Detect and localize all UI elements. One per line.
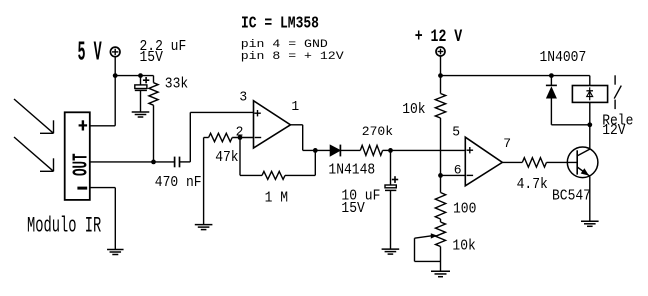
svg-text:1 M: 1 M xyxy=(265,190,288,207)
svg-text:270k: 270k xyxy=(362,124,393,139)
svg-text:pin 4 = GND: pin 4 = GND xyxy=(241,38,328,51)
svg-text:4.7k: 4.7k xyxy=(517,176,548,193)
svg-text:100: 100 xyxy=(453,201,476,218)
svg-text:5: 5 xyxy=(452,124,460,139)
svg-text:pin 8 = + 12V: pin 8 = + 12V xyxy=(241,50,345,63)
svg-text:1N4148: 1N4148 xyxy=(328,162,375,179)
svg-text:Modulo IR: Modulo IR xyxy=(27,213,101,238)
svg-text:10k: 10k xyxy=(452,238,475,255)
svg-text:15V: 15V xyxy=(140,49,164,66)
svg-text:3: 3 xyxy=(239,89,247,104)
svg-text:+ 12 V: + 12 V xyxy=(415,27,463,47)
svg-text:1N4007: 1N4007 xyxy=(540,49,587,66)
svg-text:5 V: 5 V xyxy=(78,38,102,68)
svg-text:IC = LM358: IC = LM358 xyxy=(241,15,319,33)
svg-text:1: 1 xyxy=(291,99,299,114)
svg-text:470 nF: 470 nF xyxy=(155,174,202,191)
svg-text:10k: 10k xyxy=(402,101,425,118)
svg-text:15V: 15V xyxy=(341,200,365,217)
svg-text:7: 7 xyxy=(503,136,511,151)
svg-text:BC547: BC547 xyxy=(552,188,591,205)
svg-text:OUT: OUT xyxy=(69,153,93,176)
svg-text:12V: 12V xyxy=(602,122,626,139)
svg-text:47k: 47k xyxy=(215,149,238,166)
svg-text:33k: 33k xyxy=(165,76,188,93)
